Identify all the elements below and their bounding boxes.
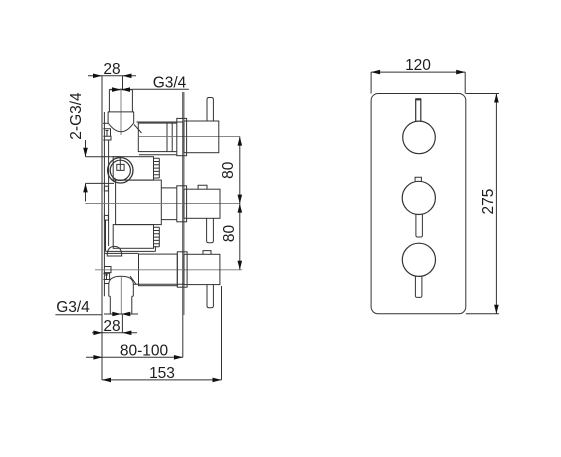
dim 120: left ext (plate edge up) <box>370 72 372 93</box>
body top edge <box>137 121 183 123</box>
dim 28 bottom: dimension line <box>92 332 137 334</box>
svg-text:80-100: 80-100 <box>120 342 169 359</box>
knob2 flange <box>177 186 187 222</box>
body bottom edge <box>104 283 108 285</box>
wall line B <box>103 112 105 296</box>
svg-text:275: 275 <box>480 189 497 215</box>
top fitting nut <box>108 112 134 123</box>
dim 275 arrows <box>494 94 499 103</box>
knob circle bottom <box>402 243 435 276</box>
G3/4 bottom leader <box>55 314 102 316</box>
diagonal body to arch <box>130 276 136 285</box>
mounting plate line <box>182 92 184 315</box>
thermostat circle outer <box>108 158 133 183</box>
dim 80-100: dimension line <box>86 356 183 358</box>
bottom stem <box>415 276 422 297</box>
knob2 neck to flange <box>161 188 177 220</box>
svg-text:2-G3/4: 2-G3/4 <box>68 92 85 140</box>
knob3 flange <box>177 252 187 287</box>
G3/4 top leader <box>132 88 188 90</box>
dim 153: dimension line <box>102 379 222 381</box>
lug mid upper <box>104 186 108 191</box>
knob2 body <box>184 189 220 218</box>
dim 275: top ext <box>466 93 499 95</box>
knob circle top <box>403 121 436 154</box>
plate ext line for 80-100 <box>182 315 184 357</box>
diagonal fitting to body <box>134 125 142 134</box>
bottom pipe <box>110 296 132 314</box>
knob2 centerline <box>85 203 240 205</box>
knob2 stem <box>207 218 214 243</box>
knob1 neck to flange <box>172 123 176 152</box>
svg-text:28: 28 <box>103 318 120 335</box>
svg-text:80: 80 <box>221 225 238 243</box>
threads upper <box>154 158 160 178</box>
dim 28 bottom arrows <box>93 331 102 336</box>
svg-text:153: 153 <box>149 365 175 382</box>
top pipe centerline <box>120 88 122 135</box>
dim 275: bottom ext <box>466 313 499 315</box>
svg-text:G3/4: G3/4 <box>153 75 187 92</box>
body top edge from wall to fitting <box>103 122 108 124</box>
body left edge line <box>108 141 110 247</box>
top pipe arrow pair at centerline <box>112 87 130 92</box>
bottom fitting wide section <box>109 284 134 297</box>
wall line A (front/extension line) <box>101 76 103 380</box>
svg-text:80: 80 <box>220 161 237 179</box>
dim 120: line <box>371 71 465 73</box>
upper port block with threads <box>113 157 153 180</box>
knob1 stem <box>207 98 213 122</box>
block1 inner edge <box>166 123 168 152</box>
dim 80 arrows at mid <box>238 195 243 213</box>
knob3 body <box>184 254 220 284</box>
svg-text:G3/4: G3/4 <box>56 299 90 316</box>
knob3 centerline <box>95 269 242 271</box>
lower-left housing <box>106 220 156 252</box>
knob1 flange <box>177 118 187 155</box>
block1 washer line <box>139 154 177 156</box>
small step ticks <box>108 111 134 113</box>
dim 28 top: right arrow <box>123 74 132 79</box>
middle tab <box>415 177 421 181</box>
lug mid lower <box>104 215 108 220</box>
bottom pipe end line with arrow pair <box>104 313 138 315</box>
knob1 centerline <box>139 136 240 138</box>
svg-text:28: 28 <box>103 61 120 78</box>
dim 28 top: right ext line to pipe top <box>122 76 124 90</box>
dim 275: line <box>495 94 497 314</box>
cartridge block 1 (behind top knob) <box>138 123 172 152</box>
step ticks bottom <box>109 295 134 297</box>
port mark inside circle <box>117 158 124 170</box>
ext from knob1 <box>219 136 240 138</box>
2-G3/4 dim line lower segment <box>85 183 87 201</box>
dim 120 arrows <box>371 70 380 75</box>
threads lower <box>154 227 160 247</box>
lower port block with threads <box>113 225 153 249</box>
circle tangent leader bottom <box>86 182 115 184</box>
dim 80 arrows at knob3 <box>238 261 243 270</box>
thermostat circle inner <box>110 160 130 180</box>
dome boss lower-left <box>107 246 122 256</box>
dim 28 top: dimension line <box>88 75 136 77</box>
knob3 tab <box>203 251 211 255</box>
lower housing line <box>105 252 139 254</box>
dim 80 arrows at knob1 <box>238 137 243 146</box>
circle tangent leader top <box>86 156 122 158</box>
dim 80 (upper): line <box>239 137 241 270</box>
dim 28 bottom: ext line right <box>121 314 123 333</box>
bottom pipe centerline <box>120 277 122 314</box>
dim 153 arrows <box>102 378 111 383</box>
wall lug top <box>103 129 111 140</box>
2-G3/4 dim line upper segment <box>85 140 87 157</box>
top stem cap <box>415 98 421 100</box>
knob1 body <box>184 121 219 153</box>
dim 153: right ext line <box>221 286 223 380</box>
middle stem <box>416 215 423 238</box>
knob3 cartridge (extends left) <box>139 254 178 286</box>
dim 28 top: left arrow <box>93 74 102 79</box>
2-G3/4 arrow up <box>83 183 88 192</box>
knob2 tab <box>198 185 207 189</box>
top stem <box>416 99 421 121</box>
top pipe <box>109 90 132 112</box>
dim 120: right ext <box>464 72 466 93</box>
svg-text:120: 120 <box>405 57 431 74</box>
dim 80-100 arrows <box>93 355 102 360</box>
middle block <box>116 180 162 225</box>
top fitting dome bottom arc <box>108 123 134 132</box>
knob3 stem <box>207 285 213 308</box>
bottom fitting arch <box>109 276 134 283</box>
knob circle middle <box>402 181 435 214</box>
2-G3/4 arrow down <box>83 148 88 157</box>
wall lug bottom <box>104 267 111 273</box>
plate <box>371 94 466 314</box>
